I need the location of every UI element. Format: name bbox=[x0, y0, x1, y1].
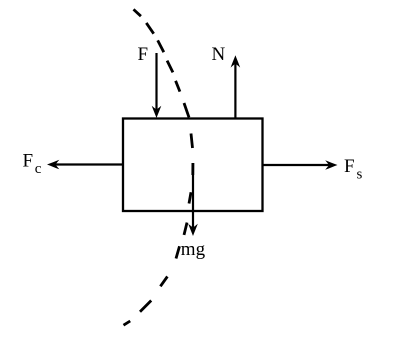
svg-text:F: F bbox=[138, 44, 149, 65]
force F arrow (downward onto top of block) bbox=[152, 53, 162, 118]
centripetal force Fc arrow (leftward from left side of block) bbox=[47, 160, 123, 170]
svg-text:F: F bbox=[344, 156, 355, 177]
svg-text:mg: mg bbox=[181, 239, 206, 260]
svg-text:F: F bbox=[23, 151, 34, 172]
svg-text:c: c bbox=[35, 161, 42, 177]
svg-text:N: N bbox=[212, 44, 226, 65]
block (rectangle) bbox=[123, 119, 263, 212]
normal force N arrow (upward from top of block) bbox=[231, 55, 241, 118]
weight mg arrow (downward from centre of block) bbox=[188, 163, 198, 236]
dashed circular trajectory arc bbox=[124, 9, 193, 325]
svg-text:s: s bbox=[357, 167, 363, 183]
side force Fs arrow (rightward from right side of block) bbox=[263, 160, 338, 170]
